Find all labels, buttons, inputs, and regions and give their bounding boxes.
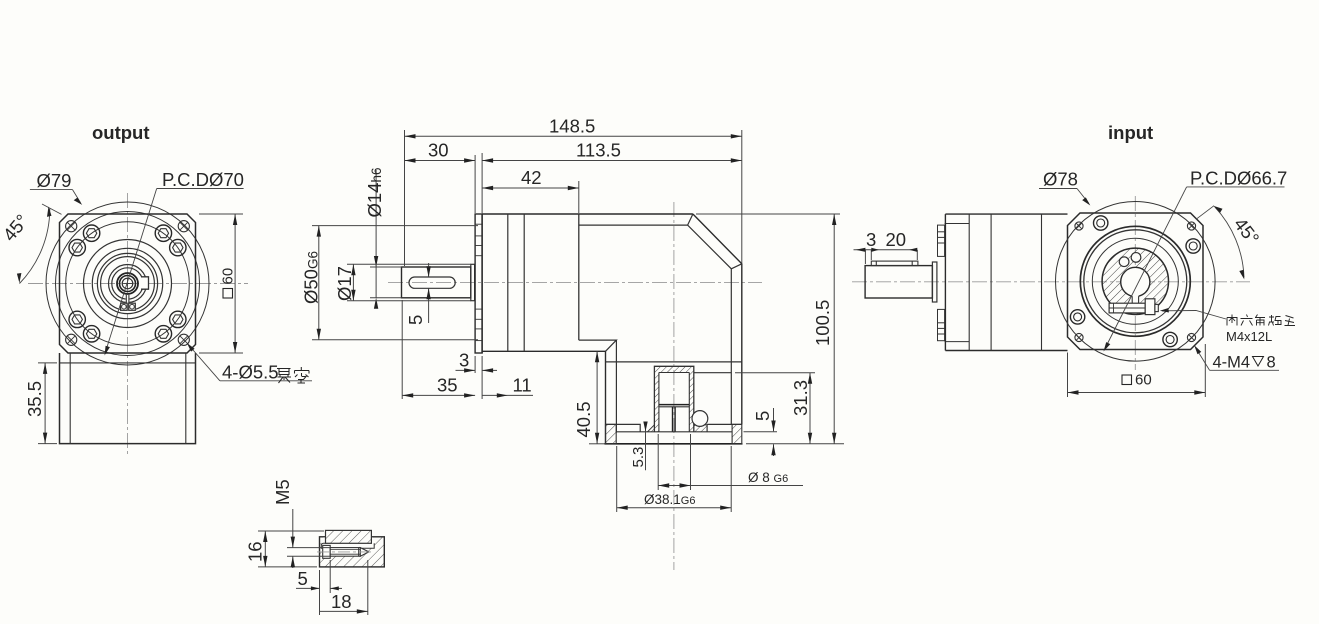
svg-text:16: 16 [245, 541, 266, 562]
gear body rectangle [482, 214, 693, 353]
8 socket screws [69, 225, 186, 342]
cup internal double line [659, 404, 689, 406]
shaft key [871, 261, 918, 266]
center cross [123, 283, 133, 285]
collar slot lines [125, 295, 127, 303]
dim 148.5 [405, 130, 742, 266]
lower body inner walls [69, 353, 71, 444]
svg-text:5: 5 [752, 411, 773, 421]
svg-text:5: 5 [298, 568, 308, 589]
keyway white-out [141, 277, 149, 289]
svg-text:M4x12L: M4x12L [1226, 329, 1272, 344]
svg-text:35.5: 35.5 [24, 381, 45, 417]
key hatched [326, 530, 372, 543]
flange plate edge [475, 214, 482, 353]
dim square60 [199, 214, 243, 353]
svg-text:35: 35 [437, 375, 458, 396]
lower body rectangle [60, 353, 196, 444]
svg-text:113.5: 113.5 [576, 140, 621, 161]
keyway slot [409, 277, 455, 288]
bearing ring column [938, 224, 970, 342]
dim 100.5 [696, 214, 840, 444]
body section lines [507, 214, 509, 351]
svg-text:M5: M5 [272, 479, 293, 505]
chamfer end ticks [688, 214, 693, 225]
svg-text:42: 42 [521, 167, 542, 188]
svg-text:3: 3 [459, 350, 469, 371]
dim 5 [296, 560, 342, 615]
svg-text:20: 20 [886, 229, 907, 250]
dim 31.3 [735, 373, 815, 444]
keyway box [141, 277, 149, 289]
shaft collar [932, 262, 937, 302]
detail block hatched [320, 537, 385, 567]
dim D8 G6 [658, 434, 803, 490]
dim square60 input [1068, 344, 1206, 397]
svg-text:P.C.DØ70: P.C.DØ70 [162, 169, 244, 190]
svg-text:output: output [92, 122, 150, 143]
pilot circle r72 [56, 212, 200, 356]
45 deg annotation [42, 204, 62, 214]
pilot ring circles [1080, 226, 1190, 336]
dim 3 flange [456, 356, 498, 399]
svg-text:3: 3 [866, 229, 876, 250]
dim D17 [347, 264, 471, 300]
cavity floor line [694, 372, 732, 374]
outer circle D78 [1056, 201, 1216, 361]
flange end blocks hatched [606, 424, 617, 443]
head joint line [606, 361, 742, 363]
centerline vertical [1134, 196, 1136, 370]
step ledge [579, 340, 617, 351]
svg-text:Ø38.1G6: Ø38.1G6 [644, 492, 695, 507]
body section lines [968, 214, 970, 350]
coupling cup outline [654, 366, 693, 432]
flange top surface with recess steps [606, 424, 742, 431]
svg-text:8: 8 [1267, 354, 1276, 372]
channel divider [672, 407, 674, 432]
dim 40.5 [596, 351, 598, 444]
corner hole BL [66, 334, 77, 345]
centerline horizontal [28, 283, 248, 285]
corner hole BR [1187, 333, 1195, 341]
svg-text:148.5: 148.5 [549, 116, 595, 137]
head outer left wall [605, 351, 607, 444]
centerline horizontal [852, 281, 1250, 283]
body head joint [578, 214, 580, 340]
dim 18 [320, 560, 368, 615]
VIEW4: M5 detail view [245, 479, 385, 615]
dim 35 and 11 [402, 300, 533, 399]
shaft collar D17 [471, 264, 475, 300]
dim D38.1G6 [617, 446, 732, 512]
cup feet outline [648, 425, 655, 432]
body profile [945, 214, 1067, 350]
collar slot white-out [126, 294, 130, 304]
VIEW2: middle side section view [301, 116, 845, 571]
label 4-M4 depth 8 [1210, 369, 1279, 371]
head inner top line [579, 225, 732, 424]
svg-text:60: 60 [1135, 372, 1152, 389]
centerline horizontal [388, 281, 762, 283]
dim 113.5 and 30 [405, 153, 742, 213]
svg-text:Ø78: Ø78 [1043, 169, 1078, 190]
VIEW1: output face view [0, 122, 312, 455]
inner circle r43 [1092, 238, 1178, 324]
coupling hatched circle [1102, 248, 1168, 314]
svg-text:5.3: 5.3 [630, 447, 647, 468]
M4 tapped holes [1070, 216, 1200, 347]
lower body joint line [60, 362, 196, 364]
flange outer circle D79 [46, 202, 209, 365]
head outer chamfer [693, 214, 742, 424]
svg-text:Ø17: Ø17 [334, 266, 355, 301]
key groove white [321, 537, 374, 548]
inner boss circle r44 [84, 240, 172, 328]
svg-text:input: input [1108, 122, 1153, 143]
dim 3 key [854, 250, 918, 264]
label hex socket screw [1162, 311, 1226, 320]
centerline vertical head axis [673, 202, 675, 570]
VIEW3: input face view [852, 122, 1295, 397]
svg-text:31.3: 31.3 [790, 380, 811, 416]
screw cone point [360, 548, 369, 557]
dim M5 [287, 509, 330, 568]
head inner left wall [615, 340, 617, 433]
input flange square [1068, 213, 1204, 350]
clamp screw head [1145, 299, 1155, 315]
dim D14h6 [370, 170, 402, 298]
screw body [330, 548, 360, 557]
corner hole BL [1075, 333, 1083, 341]
corner hole TR [1187, 222, 1195, 230]
dim 5 right [744, 408, 845, 456]
screw centerline [317, 551, 373, 553]
svg-text:4-Ø5.5: 4-Ø5.5 [222, 362, 279, 383]
corner hole TR [178, 221, 189, 232]
corner hole BR [178, 334, 189, 345]
svg-text:Ø79: Ø79 [37, 170, 72, 191]
center thick rings [117, 273, 138, 294]
collar clamp tabs [121, 303, 128, 310]
centerline vertical [127, 193, 129, 455]
clamp slot [1132, 294, 1138, 303]
corner hole TL [1075, 222, 1083, 230]
dim keyway 5 [428, 263, 430, 323]
flange recess line [616, 431, 732, 433]
dim D50G6 [312, 226, 478, 340]
svg-text:18: 18 [331, 591, 352, 612]
boss circle r35.2 [92, 248, 162, 318]
svg-text:P.C.DØ66.7: P.C.DØ66.7 [1190, 168, 1287, 189]
dim 5.3 [645, 425, 647, 470]
svg-text:Ø 8 G6: Ø 8 G6 [748, 470, 788, 485]
svg-text:4-M4: 4-M4 [1213, 354, 1251, 372]
groove outline [321, 543, 374, 548]
svg-text:30: 30 [428, 140, 449, 161]
svg-text:40.5: 40.5 [573, 401, 594, 437]
label 4-D5.5 through [188, 345, 220, 381]
balance holes [1119, 257, 1129, 267]
flange pilot step lines [475, 224, 482, 340]
svg-text:11: 11 [513, 375, 532, 396]
dim 35.5 [38, 363, 57, 444]
clamp screw circle [692, 411, 708, 427]
output shaft D14 [402, 267, 471, 298]
svg-text:100.5: 100.5 [812, 300, 833, 346]
dim 16 [258, 531, 324, 567]
screw entry counterbore [323, 545, 331, 558]
output shaft silhouette [865, 266, 932, 298]
coupling cup hatch [648, 366, 708, 432]
clamp screw body [1109, 303, 1145, 313]
svg-text:5: 5 [405, 315, 426, 325]
45 deg annotation [1196, 206, 1214, 220]
corner hole TL [66, 221, 77, 232]
screw bolt circle r61.8 [66, 222, 190, 346]
coupling bore [1121, 267, 1150, 296]
square flange outline [60, 214, 196, 353]
dim 42 [482, 181, 579, 213]
svg-text:60: 60 [220, 268, 237, 285]
clamp collar circles r30.1 r26.9 [97, 253, 157, 313]
shaft circles r19 r15.7 [109, 265, 147, 303]
flange bottom edge [605, 443, 743, 445]
